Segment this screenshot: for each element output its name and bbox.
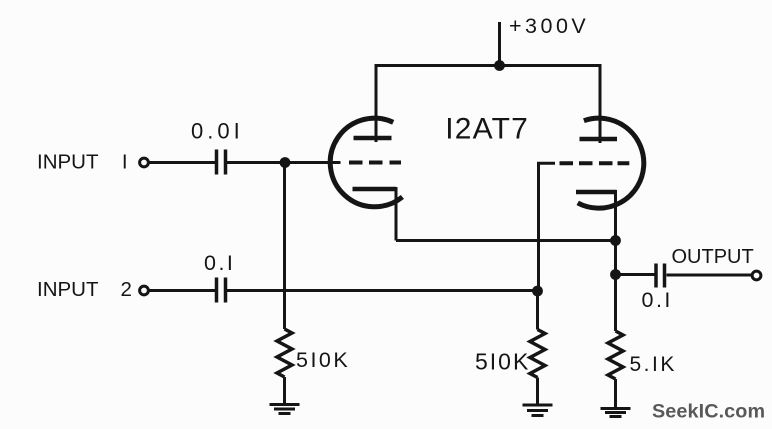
svg-text:0.I: 0.I <box>642 288 673 312</box>
svg-text:0.0I: 0.0I <box>191 118 244 143</box>
svg-text:I2AT7: I2AT7 <box>445 113 529 146</box>
svg-text:+300V: +300V <box>509 14 589 38</box>
svg-text:5.IK: 5.IK <box>630 353 677 376</box>
svg-text:INPUT: INPUT <box>37 151 99 174</box>
svg-text:5I0K: 5I0K <box>296 348 350 372</box>
svg-text:5I0K: 5I0K <box>475 349 530 375</box>
svg-text:2: 2 <box>121 278 132 301</box>
svg-text:OUTPUT: OUTPUT <box>672 246 754 268</box>
svg-text:0.I: 0.I <box>204 251 235 275</box>
svg-text:I: I <box>122 151 128 174</box>
svg-text:SeekIC.com: SeekIC.com <box>652 401 765 423</box>
svg-text:INPUT: INPUT <box>37 278 99 301</box>
